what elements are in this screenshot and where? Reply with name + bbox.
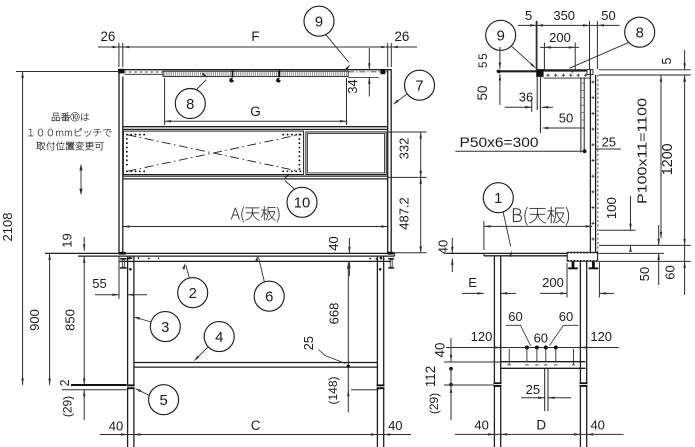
front view panel frame right edge [388, 69, 392, 253]
svg-text:4: 4 [215, 330, 223, 346]
side top shelf bottom line [544, 77, 590, 79]
side top dim row 5 350 50 [518, 8, 620, 70]
note 25 shelf offset [301, 336, 346, 364]
dimension 200 side lower [540, 262, 614, 298]
svg-text:850: 850 [63, 309, 78, 331]
svg-text:1200: 1200 [660, 143, 676, 175]
label 60 right leader [550, 309, 579, 346]
dimension 40 bench rail front [326, 236, 351, 276]
bench rail bottom line [119, 260, 391, 262]
extension line bench top left [45, 252, 60, 254]
dimension 900 [27, 253, 51, 385]
bench rail hole dots [131, 257, 378, 259]
svg-text:3: 3 [161, 320, 169, 336]
left junction block [119, 252, 126, 255]
label P50x6=300 [455, 135, 586, 153]
label 120 left [471, 329, 493, 344]
hanger rail perforated strip [163, 71, 348, 76]
bench top second line [78, 255, 395, 257]
top left corner block [118, 69, 124, 74]
svg-text:668: 668 [326, 303, 341, 325]
dimension B width [484, 221, 592, 250]
side rear rail block [567, 252, 597, 261]
svg-text:900: 900 [27, 309, 42, 331]
dimension text 26 left [100, 29, 115, 44]
side dim 36 [505, 90, 553, 113]
svg-text:36: 36 [519, 90, 533, 105]
side bench top [446, 253, 567, 255]
hanger rail lower edge left [125, 73, 164, 75]
svg-text:60: 60 [534, 331, 548, 346]
svg-text:8: 8 [636, 26, 644, 42]
side shelf hanger channel [545, 368, 548, 411]
svg-text:D: D [536, 418, 546, 433]
label B tenban [513, 207, 569, 226]
svg-text:P100x11=1100: P100x11=1100 [635, 98, 650, 204]
dimension 60 side right [598, 245, 690, 295]
dimension 332 [388, 132, 427, 177]
note 25 side upper [595, 135, 621, 150]
side rear upright hole marks P100 [592, 81, 595, 241]
left leg adjuster joint [127, 384, 135, 389]
dimension 2108 [0, 72, 119, 385]
side dim 5 5 50 left [475, 47, 501, 105]
svg-text:120: 120 [590, 329, 612, 344]
svg-text:1: 1 [494, 191, 502, 207]
side block bolt right [589, 262, 599, 270]
side P50 bracket lines [581, 78, 584, 153]
dimension 5 top right [660, 50, 686, 82]
side top corner block [536, 69, 543, 77]
balloon 4 [194, 322, 235, 362]
dimension 487.2 [392, 177, 427, 252]
side lower shelf [501, 362, 586, 369]
label 60 middle [534, 331, 548, 346]
svg-text:5: 5 [478, 62, 490, 68]
right leg [377, 256, 383, 447]
svg-text:40: 40 [590, 418, 604, 433]
dimension G [165, 78, 347, 125]
side dim 50 holes [542, 111, 584, 134]
side top extension lines right [599, 70, 691, 75]
panel 10 hole dots left column [126, 139, 128, 168]
svg-text:5: 5 [660, 57, 674, 64]
svg-text:25: 25 [602, 135, 616, 150]
dimension text 26 right [394, 29, 409, 44]
label 120 right [590, 329, 612, 344]
hanger rail dash-dot right [348, 71, 387, 73]
perforated panel 10 outline [123, 131, 303, 174]
side thick front edge line [497, 70, 537, 72]
balloon 9 front [304, 6, 351, 70]
balloon 2 [178, 263, 208, 308]
left leg [128, 256, 134, 447]
side rear upright panel [590, 70, 595, 252]
panel 10 hole dots top-left [127, 134, 146, 136]
dimension 25 side lower [521, 382, 571, 399]
svg-text:50: 50 [475, 86, 490, 101]
svg-text:50: 50 [637, 267, 652, 281]
balloon 3 [133, 312, 180, 342]
panel 10 hole dots bottom-right [283, 170, 301, 172]
balloon 7 [393, 70, 435, 105]
hanger rail hidden edge dashed [123, 71, 163, 73]
svg-text:25: 25 [301, 336, 316, 350]
hanger rail right bracket block [380, 69, 385, 74]
svg-text:60: 60 [508, 309, 522, 324]
svg-text:50: 50 [601, 8, 615, 23]
side top shelf hole cross marks [546, 74, 587, 77]
svg-text:9: 9 [497, 29, 505, 45]
dimension text 40 side bottom left [474, 418, 488, 433]
right leg bolt diamonds [379, 257, 382, 271]
dimension 40 112 29 column [423, 338, 501, 420]
svg-text:487.2: 487.2 [397, 197, 412, 230]
dimension 850 [63, 256, 86, 384]
front view panel top edge [118, 69, 391, 71]
dimension 50 side right [598, 225, 664, 285]
svg-text:60: 60 [559, 309, 573, 324]
dimension 40 side bench [435, 238, 453, 272]
dimension text F [251, 29, 259, 44]
panel 10 hole dots right column [298, 135, 300, 172]
note double arrow [79, 164, 82, 196]
side block bolt left [568, 262, 578, 270]
side top shelf thick edge [537, 69, 587, 71]
panel 10 hole dots bottom-left [127, 170, 146, 172]
dimension P100x11=1100 [635, 75, 663, 238]
side rear upright hidden edge [597, 75, 599, 252]
lower shelf front view [134, 363, 378, 368]
dimension (29) front [61, 378, 86, 420]
note line 2 [28, 128, 111, 136]
dimension text 40 bottom mid [388, 418, 402, 433]
balloon 6 [254, 255, 284, 311]
label A tenban [231, 206, 279, 222]
right leg adjuster joint [377, 384, 385, 389]
svg-text:40: 40 [326, 236, 341, 250]
note line 1 [52, 112, 89, 121]
dimension E [462, 275, 516, 295]
svg-text:25: 25 [526, 382, 540, 397]
svg-text:F: F [251, 29, 259, 44]
svg-text:60: 60 [663, 265, 678, 279]
left leg bolt diamonds [128, 257, 131, 271]
bottom dimension row front view [100, 433, 411, 436]
panel 10 diagonal brace mark 1 [128, 135, 299, 171]
svg-text:350: 350 [553, 8, 575, 23]
right clamp bracket [388, 258, 394, 269]
side top right cap [587, 69, 593, 74]
svg-text:5: 5 [478, 53, 490, 59]
balloon 9 side [486, 20, 536, 68]
svg-text:112: 112 [423, 366, 438, 387]
svg-text:C: C [251, 418, 261, 433]
svg-text:(148): (148) [326, 376, 340, 404]
svg-text:332: 332 [397, 138, 412, 160]
svg-text:(29): (29) [61, 396, 75, 417]
side shelf hole ticks [509, 349, 573, 364]
svg-text:2: 2 [189, 286, 197, 302]
svg-text:40: 40 [109, 419, 123, 434]
side rear leg adjuster [580, 382, 588, 387]
svg-text:50: 50 [559, 111, 573, 126]
bench top line with left extension [45, 252, 395, 254]
panel 10 diagonal brace mark 2 [128, 135, 299, 171]
dim row hole spacing [446, 346, 619, 362]
svg-text:55: 55 [92, 276, 106, 291]
upper shelf lines [123, 127, 388, 130]
dimension 2 thick gap line [58, 379, 126, 386]
note line 3 [36, 142, 103, 151]
dimension 19 [60, 233, 86, 250]
svg-text:5: 5 [525, 8, 532, 23]
svg-text:8: 8 [186, 97, 194, 113]
svg-text:6: 6 [265, 290, 273, 306]
balloon 8 side [567, 17, 654, 73]
label 60 left leader [506, 309, 531, 346]
side front leg [494, 256, 500, 447]
svg-text:200: 200 [542, 275, 564, 290]
foot joint lower ext line [62, 389, 127, 391]
side front bracket holes P50 [582, 83, 584, 120]
right junction block [388, 252, 394, 255]
balloon 10 [284, 174, 318, 217]
balloon 5 [135, 385, 179, 415]
side front leg adjuster [494, 382, 502, 387]
hanger rail lower ext line [348, 76, 379, 78]
svg-text:9: 9 [315, 15, 323, 31]
svg-text:34: 34 [345, 79, 360, 93]
svg-text:19: 19 [60, 233, 75, 247]
front view panel frame left edge [119, 69, 123, 253]
svg-text:2: 2 [58, 379, 72, 386]
bench right end tick [394, 253, 396, 256]
svg-text:40: 40 [435, 240, 450, 254]
svg-text:G: G [250, 104, 261, 119]
svg-text:40: 40 [474, 418, 488, 433]
side corner stub lines [537, 77, 540, 133]
svg-text:P50x6=300: P50x6=300 [460, 135, 539, 150]
lower shelf lines [123, 176, 388, 179]
svg-text:40: 40 [433, 343, 448, 358]
hook 1 on rail [229, 70, 234, 82]
dimension text D [536, 418, 546, 433]
svg-text:E: E [468, 275, 477, 290]
dimension 100 side [599, 196, 691, 252]
svg-text:2108: 2108 [0, 213, 15, 242]
svg-text:5: 5 [159, 393, 167, 409]
svg-text:26: 26 [100, 29, 115, 44]
svg-text:10: 10 [294, 196, 310, 212]
svg-text:200: 200 [549, 30, 571, 45]
balloon 8 front [175, 73, 207, 119]
balloon 1 [483, 183, 513, 257]
left clamp bracket [120, 258, 127, 269]
bottom dimension row side view [455, 433, 624, 436]
dimension text 40 side bottom right [590, 418, 604, 433]
side dim 200 top [540, 30, 579, 70]
side rear leg [580, 261, 586, 447]
dimension A width [123, 225, 388, 228]
dimension text 40 bottom left [109, 419, 123, 434]
dimension text C [251, 418, 261, 433]
dimension (148) [326, 366, 379, 412]
svg-text:26: 26 [394, 29, 409, 44]
dimension 55 [92, 256, 147, 299]
svg-text:120: 120 [471, 329, 493, 344]
dimension 34 [345, 48, 371, 97]
side bench left edge tick [483, 253, 485, 255]
dimension 668 [326, 262, 350, 368]
dimension 1200 [660, 75, 686, 245]
svg-text:100: 100 [604, 197, 619, 219]
svg-text:(29): (29) [427, 393, 441, 414]
top dimension line 26 F 26 [98, 43, 417, 67]
svg-text:7: 7 [415, 79, 423, 95]
panel 10 hole dots top-right [283, 134, 301, 136]
hook 2 on rail [276, 70, 281, 82]
right blank panel [306, 132, 386, 175]
svg-text:40: 40 [388, 418, 402, 433]
